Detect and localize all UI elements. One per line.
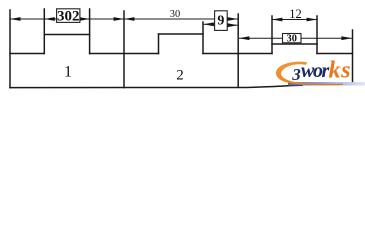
logo blue gradient underline bar [288,82,365,85]
e-works logo watermark [276,58,365,86]
left edge / extension line [9,10,11,88]
baseline segment 1 [10,53,44,55]
dim line 30: divider 124 to box 9 [124,18,215,20]
dim line left span 10 to 302 box [10,18,57,20]
dim 9 short line stubs [203,23,238,26]
baseline segment 3 [203,53,272,55]
tooth 3 left edge / extension line for 12 [271,16,273,54]
section divider 2 [237,14,239,87]
tooth 3 top [272,43,317,45]
svg-text:302: 302 [57,9,80,25]
tooth 1 top [44,34,89,36]
arrow left end at x=10 pointing left [10,17,21,21]
tooth 2 top [159,33,204,35]
arrow at x=317 pointing right (dim 12 right) [307,18,317,22]
svg-text:ks: ks [329,58,352,84]
arrow at x=124 pointing right (span B right) [114,17,124,21]
svg-text:9: 9 [217,13,224,28]
logo orange swoosh e [276,62,343,86]
dimension lines [10,19,352,38]
baseline segment 4 [317,53,353,55]
arrow at x=44.3 pointing left (302 left) [44,17,55,21]
arrowheads [10,17,352,40]
svg-text:2: 2 [176,68,184,84]
svg-text:30: 30 [170,9,180,20]
svg-text:3: 3 [291,65,301,84]
arrow at x=89.6 pointing right (302 right) [79,17,89,21]
dim line 302 box to ext 89.6 [80,18,90,20]
tooth 2 right edge / extension line for 9 [202,22,204,54]
tooth 1 left edge / extension line [43,9,45,54]
box around 9 [215,11,228,31]
arrow at x=351.8 pointing right (boxed 30 right) [341,36,351,40]
arrow at x=238 pointing right (dim 9 right) [227,23,238,27]
svg-text:30: 30 [287,33,297,44]
profile outline of stepped workpiece [10,9,353,88]
dim line boxed 30 right part [301,37,352,39]
arrow at x=239 pointing left (boxed 30 left) [239,36,249,40]
svg-text:1: 1 [64,64,72,81]
baseline segment 2 [90,53,159,55]
bottom frame line [10,85,302,87]
arrow at x=272 pointing left (dim 12 left) [272,18,282,22]
svg-text:wor: wor [301,60,330,82]
box around 302 [57,9,80,23]
dim line 12 [272,19,317,21]
dim line 30 right stub to divider 238 [227,18,238,20]
tooth 1 right edge / extension line [89,9,91,54]
arrow at x=237.8 pointing right (dim 30 right) [227,17,237,21]
tooth 2 left edge [158,34,160,54]
tooth 3 right edge / extension line for 12 [316,16,318,54]
dim line ext 89.6 to divider 124 [90,18,124,20]
right edge / extension line [352,30,354,85]
section divider 1 [123,11,125,88]
arrow at x=203.3 pointing left (dim 9 left) [203,22,214,26]
box around 30 (right) [283,34,302,43]
arrow at x=124 pointing left (dim 30 left) [124,17,134,21]
dim line boxed 30 left part [239,37,283,39]
svg-text:12: 12 [289,7,302,21]
